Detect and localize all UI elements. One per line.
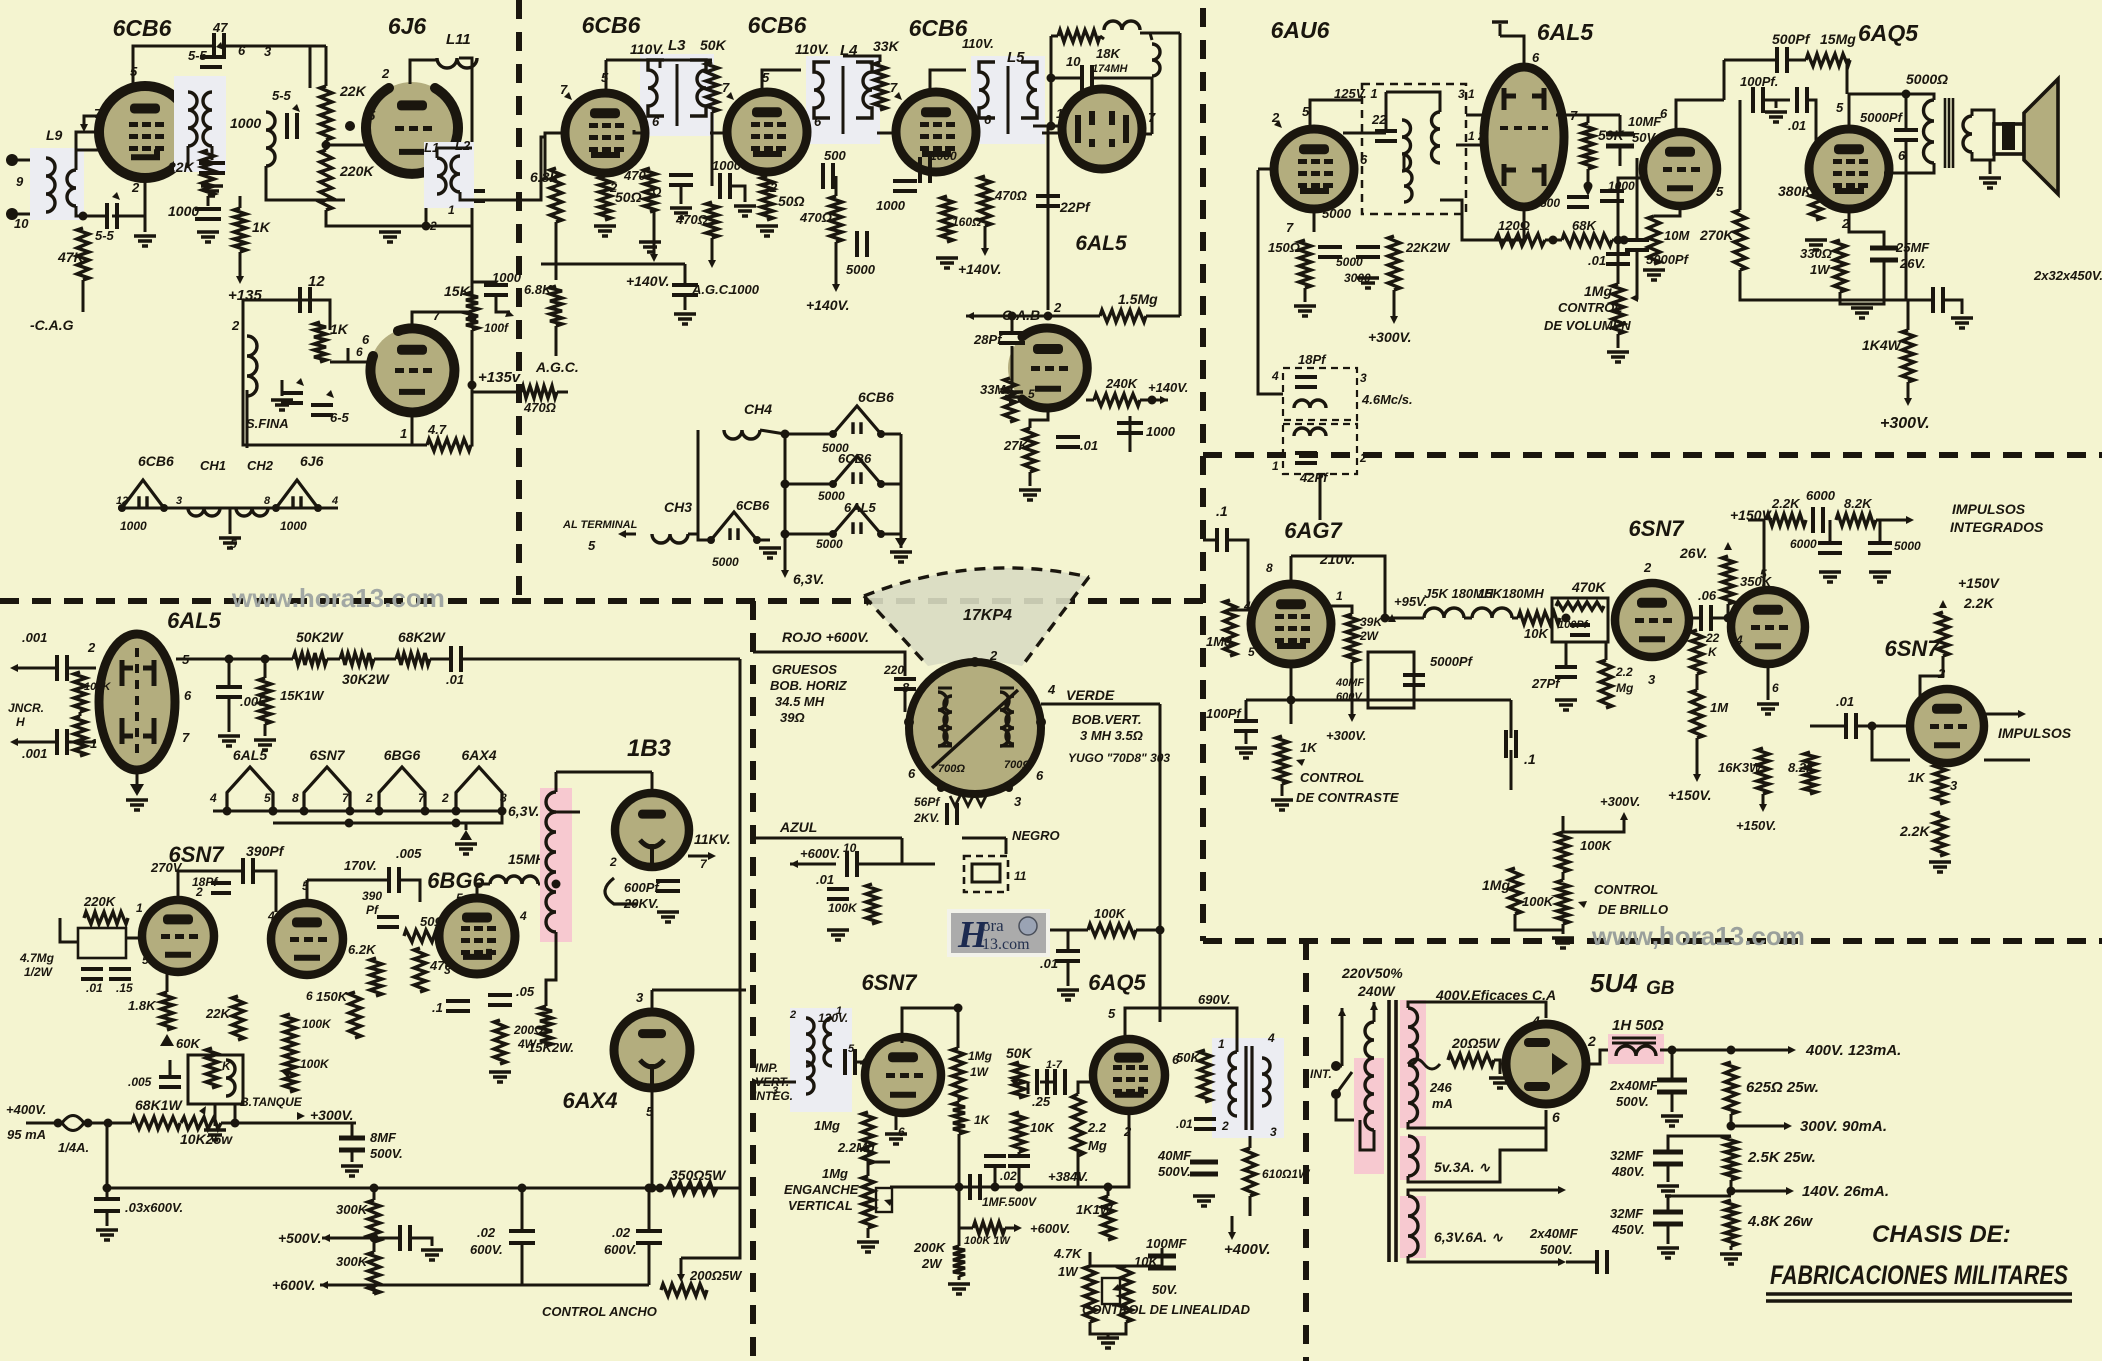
tube 6J6 mixer-osc [366,82,458,174]
svg-text:GRUESOS: GRUESOS [772,662,837,677]
coil vert pri [806,1018,814,1066]
wire 6aq5 plate [1849,94,1906,125]
capacitor 01 imp [1846,713,1856,739]
wire 1mg1w top [957,1008,960,1048]
capacitor 10MF [1606,134,1634,146]
arrow 63v b [1558,1258,1566,1266]
resistor 220K [320,150,332,210]
coil 180mh a [1424,608,1464,618]
svg-text:5000: 5000 [1322,206,1352,221]
wire 001a to tube [68,667,96,670]
deflection yoke [909,662,1041,794]
svg-text:100K 1W: 100K 1W [964,1235,1011,1247]
svg-text:500: 500 [1540,196,1560,210]
tube 6CB6 IF1 [565,93,645,173]
junction vbus2 [781,530,790,539]
wire 02b bus [1018,1167,1021,1187]
wire res row link2 [374,658,396,661]
svg-text:400V. 123mA.: 400V. 123mA. [1805,1042,1901,1059]
wire 6sn7vert plate [902,1008,958,1043]
IF transformer L5 [971,56,1045,144]
svg-text:130V.: 130V. [818,1011,848,1025]
svg-text:4.6Mc/s.: 4.6Mc/s. [1361,392,1413,407]
wire 63v bottom [1408,1256,1560,1262]
svg-text:.01: .01 [1080,438,1098,453]
svg-text:3: 3 [636,990,644,1005]
svg-text:5: 5 [588,538,596,553]
wire 470cap dn [680,186,683,204]
coil CH2 [236,508,268,516]
svg-text:220K: 220K [83,894,117,909]
svg-text:47: 47 [212,20,228,35]
wire 28pf [1011,316,1014,332]
capacitor 5000pf out [1894,130,1918,140]
resistor 350ohm5W [667,1182,717,1194]
svg-text:.005: .005 [396,846,422,861]
capacitor .03x600 [94,1199,120,1211]
resistor 1K4W [1902,330,1914,382]
ground IF1 cath [594,226,616,236]
svg-text:380K: 380K [1778,183,1812,199]
capacitor .001a [57,655,67,681]
wire fuse wire [26,1122,58,1125]
coil vert sec [806,1062,814,1094]
wire 1k4w dn [1907,382,1910,400]
dashed box 4.5Mc transformer [1362,84,1466,214]
wire 22k2w dn [1393,290,1396,318]
svg-text:500V.: 500V. [1158,1164,1191,1179]
capacitor 1000 sound [1600,191,1624,201]
resistor 50K2W [293,653,327,665]
arrow IF1 grid [564,92,572,100]
wire V3 cathode down [411,412,414,445]
svg-text:IMP.: IMP. [755,1061,778,1075]
wire 01 imp left [1810,725,1845,728]
svg-text:VERTICAL: VERTICAL [788,1198,853,1213]
capacitor 27pf [1555,667,1577,677]
pot 10K lin [1120,1266,1132,1322]
svg-text:350Ω5W: 350Ω5W [670,1167,727,1183]
wire 270k top [1739,100,1742,210]
wire 32mf a up [1668,1136,1731,1152]
arrow 63v [781,570,789,578]
resistor 50K vout [1199,1050,1211,1102]
resistor 6.8Kb [550,286,562,326]
wire 6bg6 top cap [477,884,490,898]
svg-text:1.8K: 1.8K [128,998,157,1013]
resistor 625ohm [1725,1062,1737,1114]
wire divider [325,140,328,150]
svg-text:95 mA: 95 mA [7,1127,46,1142]
ground 1000 tuner [201,186,223,196]
svg-text:350K: 350K [1740,574,1773,589]
svg-text:1/4A.: 1/4A. [58,1140,89,1155]
arrow +150 imp [1939,600,1947,608]
arrow contrast pot [1296,759,1305,766]
wire 1m dn [1696,738,1699,776]
capacitor 02 600 b [636,1231,662,1243]
svg-text:1: 1 [136,901,143,915]
svg-text:700Ω: 700Ω [1004,759,1031,771]
wire heater bus lower [273,811,502,823]
wire bus 472 [471,125,474,300]
wire 01 to grid [1808,100,1816,160]
capacitor 2x40 b [1597,1250,1607,1274]
junction rail left [103,1184,112,1193]
wire 6ag7 grid2 [1230,609,1248,612]
resistor 10K tank [314,322,326,362]
resistor 15K [466,292,478,330]
svg-text:+600V.: +600V. [800,846,840,861]
svg-text:8.2K: 8.2K [1788,760,1817,775]
wire vert mid2 [958,1187,961,1246]
svg-text:B.TANQUE: B.TANQUE [240,1095,303,1109]
svg-text:6AL5: 6AL5 [167,608,222,633]
wire 600v crt [790,863,836,866]
wire L9 to grid [76,150,108,170]
wire plate node [1291,556,1385,618]
svg-text:3 1: 3 1 [1458,87,1475,101]
svg-text:6: 6 [898,1125,905,1139]
wire 6AU6 plate [1310,100,1362,129]
capacitor 1000 IF3b [920,157,930,183]
svg-text:.001: .001 [22,746,47,761]
resistor 10K sync [1518,612,1560,624]
ground 03 [96,1230,118,1240]
wire L1 top [437,148,472,158]
junction htr b [345,819,354,828]
svg-text:6: 6 [1036,768,1044,783]
resistor 1M sync [1691,690,1703,738]
capacitor 01 agc [1056,437,1080,447]
arrow +150 b [1759,804,1767,812]
vout core [1246,1046,1252,1130]
resistor 68K [1562,234,1612,246]
svg-text:2.2K: 2.2K [1771,496,1801,511]
wire 68k right [1612,239,1636,242]
resistor 22K imp [1766,514,1806,526]
wire brill up [1510,700,1513,738]
svg-text:26V.: 26V. [1679,545,1708,561]
secondary HV coil [1408,1008,1418,1122]
svg-text:5-5: 5-5 [95,228,115,243]
wire L9 bottom lead [76,206,108,216]
svg-text:5-5: 5-5 [272,88,292,103]
svg-text:6SN7: 6SN7 [1628,516,1685,541]
wire tank left [243,300,412,445]
wire negro [962,837,1006,840]
svg-text:NEGRO: NEGRO [1012,828,1060,843]
capacitor 02 verta [984,1156,1006,1166]
tube 6BG6 [439,898,515,974]
wire vout top [1160,1008,1237,1052]
wire agc row [541,263,685,266]
wire 390 wire [221,870,242,873]
svg-text:200Ω5W: 200Ω5W [689,1268,743,1283]
capacitor .001b [57,729,67,755]
wire rail to fuse [106,1123,109,1188]
svg-text:68K: 68K [1572,218,1597,233]
svg-text:YUGO "70D8" 303: YUGO "70D8" 303 [1068,751,1170,765]
svg-text:450V.: 450V. [1611,1222,1645,1237]
junction 68k out [1620,236,1629,245]
capacitor 10 det [1082,65,1092,91]
svg-text:JNCR.: JNCR. [8,701,44,715]
resistor 470 to140 [521,386,557,398]
svg-text:470Ω: 470Ω [675,212,708,227]
svg-text:50Ω: 50Ω [778,193,805,209]
resistor 20ohm5W [1448,1054,1494,1066]
svg-text:1K4W: 1K4W [1862,337,1903,353]
svg-text:1.5Mg: 1.5Mg [1118,291,1158,307]
resistor 22K tuner [202,150,214,196]
wire 1mg brill dn [1515,914,1563,930]
coil L1 [437,158,446,194]
wire aud cath [1654,206,1680,216]
svg-text:150K: 150K [316,989,349,1004]
wire otrafo top [1906,94,1934,100]
arrow vert in [752,1078,760,1086]
ground contrast2 [1235,748,1257,758]
resistor 350K [1722,556,1734,604]
wire verde [1041,703,1160,706]
svg-text:1K: 1K [1908,770,1926,785]
svg-text:INTEGRADOS: INTEGRADOS [1950,519,2044,535]
svg-text:.001: .001 [22,630,47,645]
capacitor .1 brill [1506,730,1516,758]
svg-text:6,3V.: 6,3V. [508,803,539,819]
svg-text:INT.: INT. [1310,1067,1332,1081]
capacitor 15 hosc [109,969,131,979]
coil 15MH [490,876,538,884]
svg-text:40MF: 40MF [1157,1148,1192,1163]
wire 32mf b up [1668,1196,1731,1212]
trimmer tank2 [311,405,333,415]
svg-text:Mg: Mg [1616,681,1634,695]
coil CH1 [188,508,220,516]
wire 100pf gnd stub [1775,100,1778,108]
coil L9 [46,158,55,212]
wire rojo [753,652,905,676]
capacitor 25MF [1870,248,1898,260]
wire 500v arrow [322,1237,374,1240]
svg-text:39K: 39K [1360,615,1383,629]
dashed box disc lower [1283,424,1357,474]
resistor 2.2K imp top [1937,612,1949,656]
heater pent 6BG6 [379,767,425,811]
svg-text:6SN7: 6SN7 [309,747,345,763]
arrow +150a [1724,542,1732,550]
resistor 1Mg 6ag7 [1224,600,1236,656]
wire aud grid [1618,178,1646,284]
svg-text:20KV.: 20KV. [623,896,659,911]
svg-text:.02: .02 [477,1225,496,1240]
svg-text:625Ω 25w.: 625Ω 25w. [1746,1079,1819,1096]
output transformer coil [1924,100,1935,163]
svg-text:220V50%: 220V50% [1341,965,1403,981]
wire flyback tap hv [556,811,580,814]
svg-text:DE CONTRASTE: DE CONTRASTE [1296,790,1399,805]
wire 06 right [1712,617,1731,620]
svg-text:33Mg: 33Mg [980,382,1013,397]
svg-text:20Ω5W: 20Ω5W [1451,1035,1501,1051]
heater pent 6SN7 [304,767,350,811]
svg-text:22K: 22K [167,159,195,175]
wire 1b3 top [651,772,654,794]
capacitor 600pf20kv [656,881,680,891]
resistor 18K peaking [1058,30,1100,42]
capacitor 500 [1567,197,1589,207]
wire 50K top link [1027,1082,1030,1094]
arrow IF2 grid [726,92,734,100]
wire tank to V3 [330,362,368,370]
wire vaq cath dn [1108,1111,1129,1187]
wire heater vbus right [900,434,903,548]
wire tank gnd [214,1104,217,1126]
svg-text:8MF: 8MF [370,1130,397,1145]
capacitor 005 tank [159,1077,181,1087]
resistor 33Mg [1004,378,1016,422]
svg-text:.01: .01 [1836,694,1854,709]
svg-text:.1: .1 [432,1000,443,1015]
svg-text:150Ω: 150Ω [1268,240,1300,255]
svg-text:174MH: 174MH [1092,63,1129,75]
wire quad out [1466,114,1484,117]
svg-text:4: 4 [1047,682,1056,697]
junction +135v [468,381,477,390]
arrow +300v out [1904,398,1912,406]
junction 28pf [1008,312,1017,321]
wire 5000pf dn [1884,141,1906,173]
tube 6SN7 sync a [1615,583,1689,657]
svg-text:2: 2 [1587,1033,1596,1049]
svg-text:+95V.: +95V. [1394,594,1427,609]
wire 32mf gnd [1944,300,1962,314]
svg-text:5: 5 [1028,387,1035,401]
svg-text:6J6: 6J6 [388,13,427,39]
wire 220K bottom [326,210,426,226]
wire antenna bottom [12,213,40,216]
svg-text:6,3V.: 6,3V. [793,571,824,587]
capacitor 005 ph [216,687,242,697]
wire tanque up [234,1104,237,1123]
svg-text:1000: 1000 [1608,179,1635,193]
svg-text:4: 4 [267,909,275,923]
ground imp [1929,862,1951,872]
ground phase tube [130,784,144,796]
svg-text:-C.A.G: -C.A.G [30,317,74,333]
wire 6sn7b gnd [1767,664,1770,700]
capacitor 220 yoke [894,679,916,689]
svg-text:1000: 1000 [730,282,760,297]
IF transformer L4 [806,56,880,144]
svg-text:110V.: 110V. [795,41,829,57]
junction ph out [225,655,234,664]
wire 32mf b dn [1667,1224,1670,1244]
wire L4 out [877,132,893,135]
wire 120 left [1440,200,1495,240]
white patch behind L9 [30,148,84,220]
wire box right [1618,619,1634,622]
svg-text:4.8K 26w: 4.8K 26w [1747,1213,1814,1230]
svg-text:50Ω: 50Ω [615,189,642,205]
hora13 logo box [947,909,1050,957]
wire 01 vamp dn [1067,962,1070,986]
svg-text:IMPULSOS: IMPULSOS [1952,501,2026,517]
wire agc cap stub [684,264,687,284]
svg-text:22K2W: 22K2W [1405,240,1451,255]
wire 350 right elbow [681,1188,740,1258]
wire peak corner [1140,33,1152,40]
junction divider mid [322,141,331,150]
wire 6al5 top gnd hook [1499,24,1502,36]
wire hv top [1408,1002,1546,1018]
svg-text:6AL5: 6AL5 [1537,19,1594,45]
heater tent h3 [833,506,881,534]
wire mains a [1341,1008,1344,1066]
svg-text:+300V.: +300V. [1326,728,1366,743]
wire aud plate [1676,100,1724,132]
svg-text:6: 6 [184,688,192,703]
capacitor 02 vertb [1008,1156,1030,1166]
capacitor 25 vert [1037,1069,1047,1095]
section divider dashed vertical tuner/IF [516,0,522,601]
svg-text:6: 6 [984,112,992,127]
svg-text:5: 5 [368,108,376,123]
svg-text:500Pf: 500Pf [1772,31,1811,47]
pink highlight flyback [540,788,572,942]
wire vamp wire [1050,929,1088,932]
coil S.FINA [247,336,257,396]
ground bg cath [489,1072,511,1082]
capacitor 01 vout [1194,1119,1216,1129]
capacitor 32MF480 [1653,1152,1683,1164]
resistor 200ohm4W [494,1020,506,1064]
svg-text:6BG6: 6BG6 [384,747,421,763]
svg-text:27Pf: 27Pf [1531,676,1561,691]
resistor 1Mg 1W [952,1048,964,1100]
arrow +300 brill [1620,812,1628,820]
svg-text:.01: .01 [816,872,834,887]
wire imp cath net [1872,726,1910,760]
antenna terminal dots [6,154,18,166]
ground 470cap IF1 [670,208,692,218]
svg-text:300K: 300K [336,1202,369,1217]
svg-text:11: 11 [1014,869,1027,883]
junction 1k1w [1104,1183,1113,1192]
arrow in a [10,664,18,672]
svg-text:2: 2 [131,180,140,195]
capacitor 100MF50V [1148,1256,1176,1268]
resistor 22K b [320,86,332,140]
svg-text:2: 2 [1221,1119,1229,1133]
svg-text:1: 1 [1336,589,1343,603]
ground 200k [948,1284,970,1294]
ground tank [271,400,293,410]
filament loop 1b3 [605,878,638,904]
svg-text:50K2W: 50K2W [296,629,344,645]
capacitor 22pf [1036,196,1060,206]
yoke V bumps [950,796,986,806]
wire tent2 out [881,483,901,486]
resistor enganche pot [862,1176,874,1228]
resistor 10K vert [1013,1112,1025,1152]
wire phase gnd [136,770,139,786]
svg-text:1 2: 1 2 [1468,129,1485,143]
capacitor 1000 agc2 [1117,423,1143,433]
ground 01 vamp [1057,990,1079,1000]
arrow impulsos out [2018,710,2026,718]
